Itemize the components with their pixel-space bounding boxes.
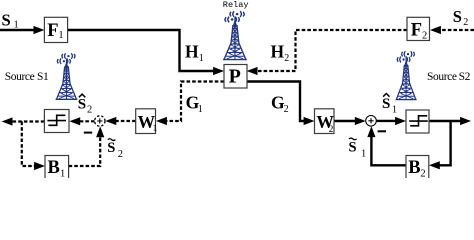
svg-text:H: H: [185, 42, 199, 62]
svg-text:B: B: [408, 158, 420, 178]
svg-text:1: 1: [392, 105, 397, 116]
svg-text:2: 2: [284, 104, 289, 115]
svg-text:S: S: [2, 10, 11, 29]
svg-text:Source: Source: [5, 71, 35, 83]
svg-text:S: S: [107, 140, 115, 156]
svg-text:2: 2: [284, 53, 289, 64]
svg-text:S: S: [78, 97, 86, 113]
svg-text:2: 2: [420, 169, 425, 178]
svg-text:S1: S1: [37, 71, 49, 83]
svg-text:S2: S2: [459, 71, 471, 83]
svg-text:1: 1: [58, 30, 63, 41]
svg-text:1: 1: [14, 20, 19, 31]
svg-text:H: H: [271, 42, 285, 62]
svg-text:S: S: [382, 96, 390, 112]
svg-text:F: F: [47, 21, 58, 41]
svg-text:P: P: [229, 66, 241, 88]
svg-text:Source: Source: [427, 71, 457, 83]
svg-text:F: F: [411, 21, 422, 41]
svg-text:S: S: [453, 7, 462, 26]
svg-text:1: 1: [199, 53, 204, 64]
svg-text:Relay: Relay: [223, 0, 249, 10]
svg-text:2: 2: [118, 149, 123, 160]
svg-text:1: 1: [198, 104, 203, 115]
svg-text:2: 2: [422, 31, 427, 42]
svg-text:S: S: [349, 140, 357, 156]
svg-text:1: 1: [361, 149, 366, 160]
svg-text:1: 1: [153, 124, 158, 134]
svg-text:1: 1: [60, 169, 65, 178]
svg-text:B: B: [48, 158, 60, 178]
svg-text:2: 2: [329, 125, 334, 135]
svg-text:2: 2: [463, 17, 468, 28]
svg-text:2: 2: [87, 105, 92, 116]
